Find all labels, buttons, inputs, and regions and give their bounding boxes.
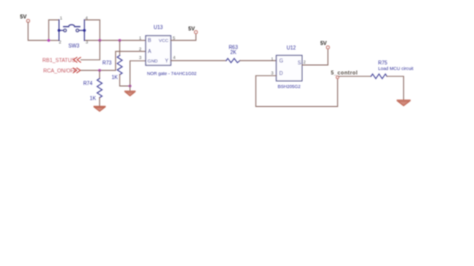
power port 5V (left) (20, 15, 30, 23)
node 5_control circle (336, 76, 339, 79)
resistor R73 (102, 40, 130, 86)
junction at switch right (98, 39, 101, 42)
junction at switch left (47, 39, 50, 42)
svg-text:5_control: 5_control (331, 71, 358, 77)
svg-text:BSH205G2: BSH205G2 (278, 84, 301, 89)
svg-text:R74: R74 (83, 81, 92, 87)
svg-text:VCC: VCC (159, 38, 169, 43)
wire U13 VCC to 5V (171, 34, 196, 41)
transistor U12 (BSH205G2) (271, 45, 306, 89)
svg-text:SW3: SW3 (68, 43, 79, 49)
wire to switch pin2 (49, 39, 59, 41)
wire RCA_ON/OFF to U13 pin A (81, 51, 146, 70)
op-amp U13 (NOR gate 74AHC1G02) (139, 25, 197, 76)
svg-text:5V: 5V (20, 15, 27, 21)
svg-text:4: 4 (85, 15, 88, 20)
svg-text:GND: GND (148, 59, 159, 64)
switch pin numbers (59, 15, 89, 44)
junction R73 tap (118, 39, 121, 42)
power port 5V (mid) (188, 27, 197, 34)
svg-text:1K: 1K (112, 75, 119, 81)
wire R63 to U12 pin G (240, 60, 276, 62)
svg-text:U13: U13 (154, 25, 163, 31)
svg-text:5: 5 (173, 36, 176, 41)
svg-text:2: 2 (303, 59, 306, 64)
resistor R63 (226, 45, 240, 63)
ground (load, right) (397, 100, 410, 106)
ground (under U13 GND) (125, 91, 135, 96)
wire switch pin4 loop (84, 20, 99, 41)
svg-text:D: D (279, 71, 283, 77)
svg-text:1: 1 (60, 15, 63, 20)
wire R75 to ground (387, 76, 404, 100)
port RCA_ON/OFF (43, 68, 80, 74)
svg-text:3: 3 (271, 71, 274, 76)
svg-text:1: 1 (139, 36, 142, 41)
svg-text:5V: 5V (320, 41, 327, 47)
junction R74 tap (98, 69, 101, 72)
svg-text:1K: 1K (90, 96, 97, 102)
svg-text:4: 4 (173, 55, 176, 60)
wire U12 D loop to 5_control (256, 76, 338, 107)
wire switch pin3 (84, 39, 99, 41)
svg-text:2: 2 (59, 40, 62, 45)
svg-text:3: 3 (139, 55, 142, 60)
svg-text:R73: R73 (102, 61, 111, 67)
wire 5_control to R75 (339, 75, 371, 77)
resistor R74 (83, 70, 102, 106)
svg-text:U12: U12 (287, 45, 296, 51)
svg-text:2K: 2K (230, 50, 237, 56)
ground (under R74) (94, 106, 105, 111)
resistor R75 (371, 61, 414, 79)
svg-text:2: 2 (139, 47, 142, 52)
junction R73/GND (129, 85, 132, 88)
wire switch to U13 pin B (100, 39, 146, 41)
wire U12 S to 5V (302, 49, 328, 65)
svg-text:NOR gate - 74AHC1G02: NOR gate - 74AHC1G02 (147, 71, 197, 76)
port RB1_STATUS (42, 57, 80, 64)
wire 5V to switch (28, 22, 49, 40)
svg-text:RB1_STATUS: RB1_STATUS (42, 58, 75, 64)
svg-text:Load MCU circuit: Load MCU circuit (378, 66, 414, 71)
wire junction to RB1_STATUS (81, 40, 100, 59)
svg-text:3: 3 (86, 40, 89, 45)
wire U13 GND pin down to ground (130, 61, 146, 91)
wire switch pin1 loop (49, 20, 59, 41)
wire U13 Y to R63 (171, 60, 226, 62)
power port 5V (right) (320, 41, 329, 49)
svg-text:G: G (279, 59, 283, 65)
svg-text:RCA_ON/OFF: RCA_ON/OFF (43, 68, 76, 74)
switch SW3 (58, 20, 86, 41)
